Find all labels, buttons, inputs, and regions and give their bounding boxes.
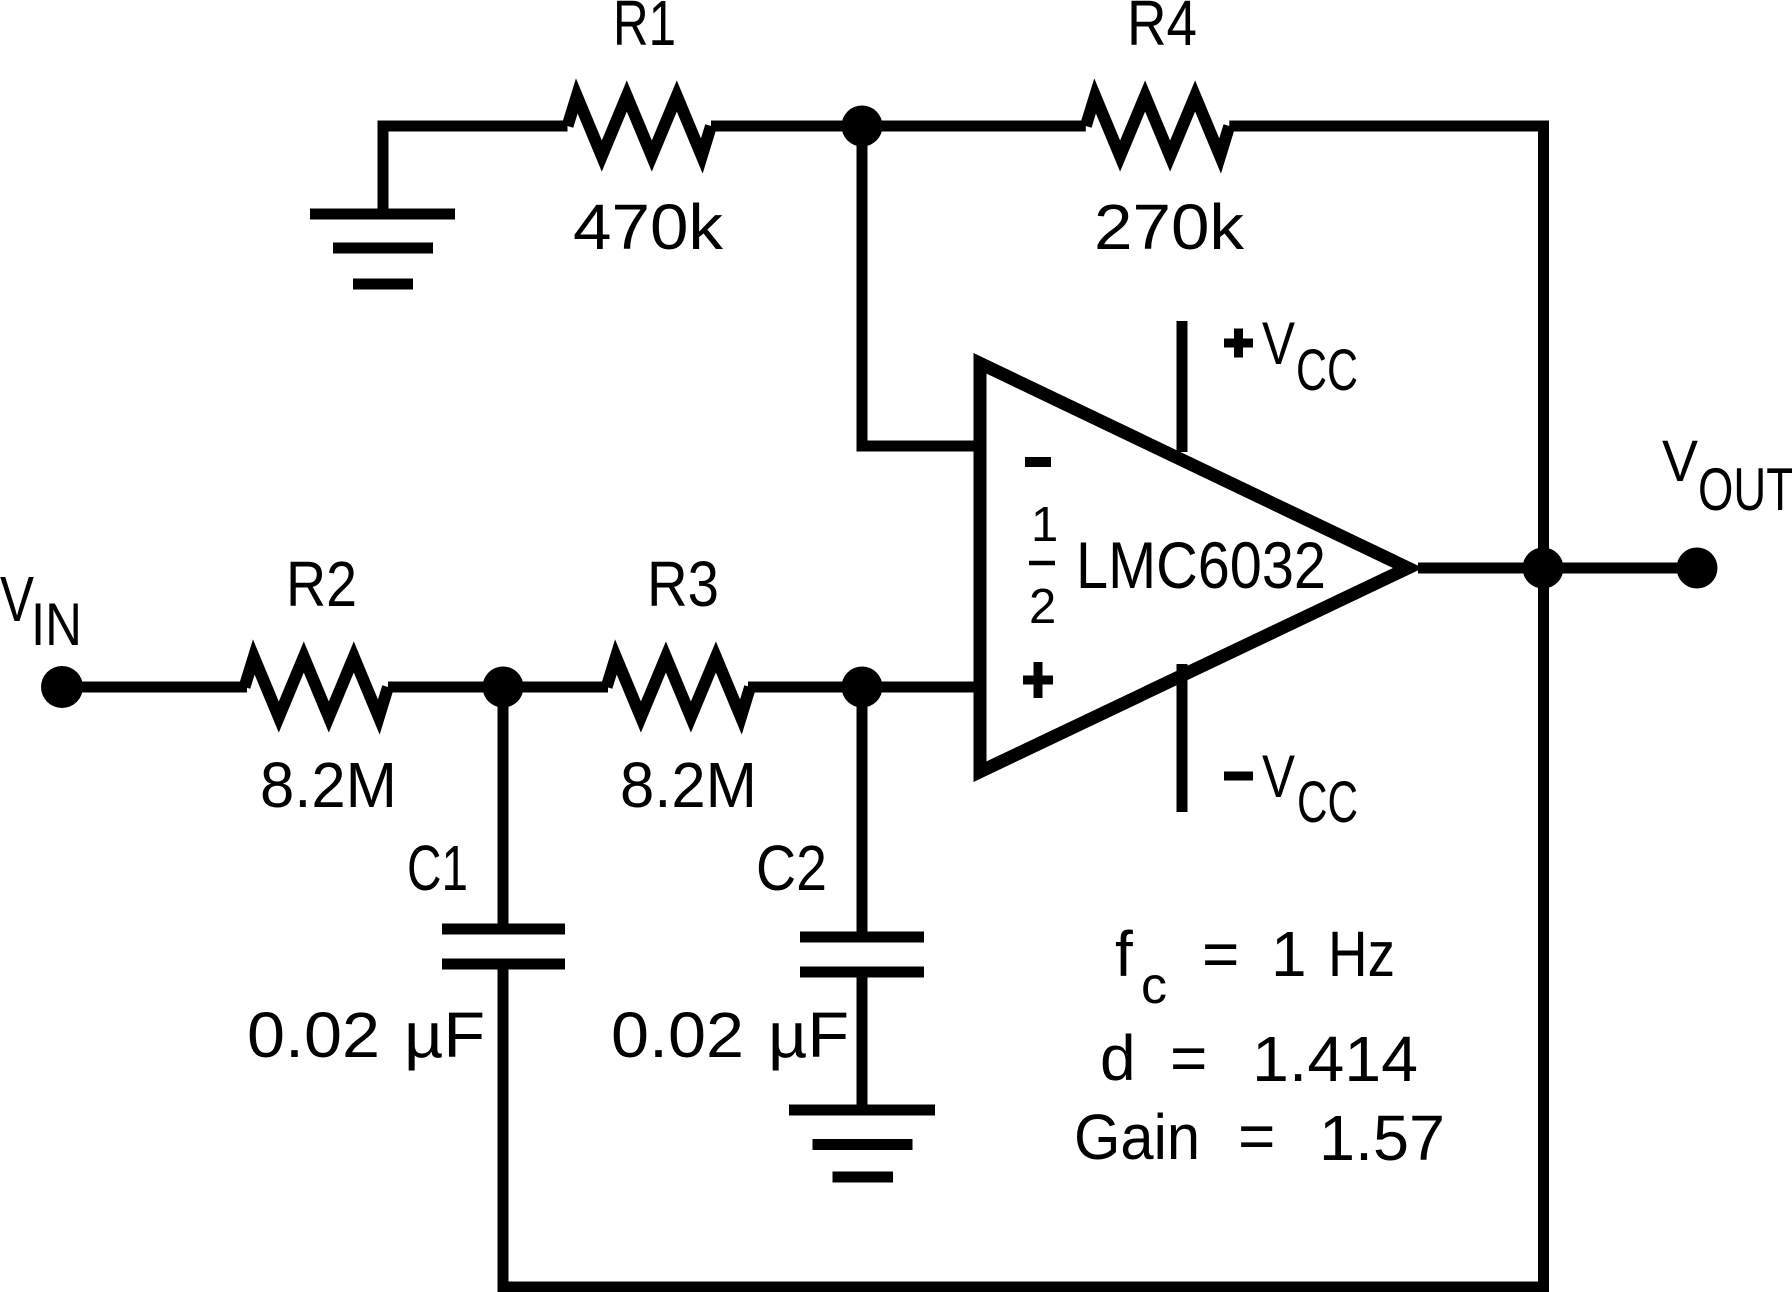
- svg-text:R3: R3: [647, 548, 719, 620]
- svg-text:R1: R1: [613, 0, 676, 59]
- svg-text:1.57: 1.57: [1319, 1102, 1445, 1174]
- wire R2 to R3 through node B: [388, 682, 608, 693]
- svg-text:µF: µF: [768, 999, 849, 1071]
- ground (left, top): [310, 214, 455, 284]
- svg-text:8.2M: 8.2M: [620, 749, 757, 821]
- wire top-left from ground to R1: [383, 126, 568, 219]
- svg-text:f: f: [1115, 918, 1133, 990]
- svg-text:LMC6032: LMC6032: [1076, 528, 1326, 602]
- svg-text:=: =: [1170, 1022, 1207, 1094]
- node A: [842, 106, 883, 147]
- op-amp minus marker: [1025, 457, 1051, 467]
- op-amp plus marker: [1023, 662, 1053, 698]
- svg-text:IN: IN: [31, 591, 82, 658]
- svg-text:c: c: [1141, 957, 1167, 1015]
- svg-text:µF: µF: [404, 999, 485, 1071]
- svg-text:1: 1: [1271, 918, 1307, 990]
- wire op-amp output: [1418, 563, 1697, 574]
- svg-text:8.2M: 8.2M: [260, 749, 397, 821]
- svg-text:0.02: 0.02: [611, 999, 744, 1071]
- svg-text:470k: 470k: [573, 191, 724, 263]
- svg-text:270k: 270k: [1094, 191, 1245, 263]
- svg-text:Gain: Gain: [1074, 1101, 1200, 1173]
- resistor R1: [568, 96, 712, 156]
- svg-text:d: d: [1100, 1022, 1136, 1094]
- capacitor C1: [442, 929, 565, 964]
- svg-text:Hz: Hz: [1328, 918, 1395, 990]
- svg-text:0.02: 0.02: [247, 999, 380, 1071]
- svg-text:V: V: [1262, 310, 1295, 377]
- -VCC label: [1224, 772, 1253, 781]
- wire node A to inverting input: [862, 126, 980, 446]
- wire C1 riser: [498, 687, 509, 929]
- node B: [483, 667, 524, 708]
- terminal VIN: [41, 666, 83, 708]
- svg-text:2: 2: [1029, 580, 1056, 634]
- node output junction: [1523, 548, 1564, 589]
- wire R4 right, right rail down, bottom rail, to C1: [503, 126, 1544, 1287]
- +VCC label: [1224, 329, 1253, 358]
- svg-text:C1: C1: [407, 832, 468, 904]
- resistor R2: [245, 657, 389, 717]
- svg-text:R2: R2: [286, 548, 357, 620]
- svg-text:R4: R4: [1127, 0, 1197, 59]
- capacitor C2: [800, 937, 924, 972]
- svg-text:1: 1: [1031, 498, 1058, 552]
- wire input row VIN to R2: [62, 682, 247, 693]
- -VCC pin: [1177, 664, 1188, 812]
- svg-text:CC: CC: [1296, 338, 1358, 403]
- resistor R4: [1086, 96, 1230, 156]
- svg-text:=: =: [1202, 918, 1239, 990]
- svg-text:OUT: OUT: [1698, 456, 1792, 523]
- ground (C2, bottom): [789, 1110, 935, 1177]
- resistor R3: [607, 657, 751, 717]
- svg-text:1.414: 1.414: [1252, 1023, 1418, 1095]
- svg-text:C2: C2: [756, 832, 827, 904]
- wire R3 to op-amp + input through node C: [748, 682, 980, 693]
- wire C2 riser: [857, 687, 868, 937]
- wire C2 to ground: [857, 972, 868, 1110]
- op-amp U1 triangle: [974, 353, 1424, 782]
- svg-text:CC: CC: [1297, 770, 1358, 835]
- wire node A to R4: [711, 121, 1086, 132]
- terminal VOUT: [1677, 548, 1718, 589]
- node C: [842, 667, 883, 708]
- svg-text:V: V: [0, 563, 34, 635]
- svg-text:V: V: [1262, 743, 1295, 810]
- svg-text:=: =: [1238, 1100, 1275, 1172]
- svg-text:V: V: [1662, 429, 1698, 494]
- +VCC pin: [1177, 321, 1188, 452]
